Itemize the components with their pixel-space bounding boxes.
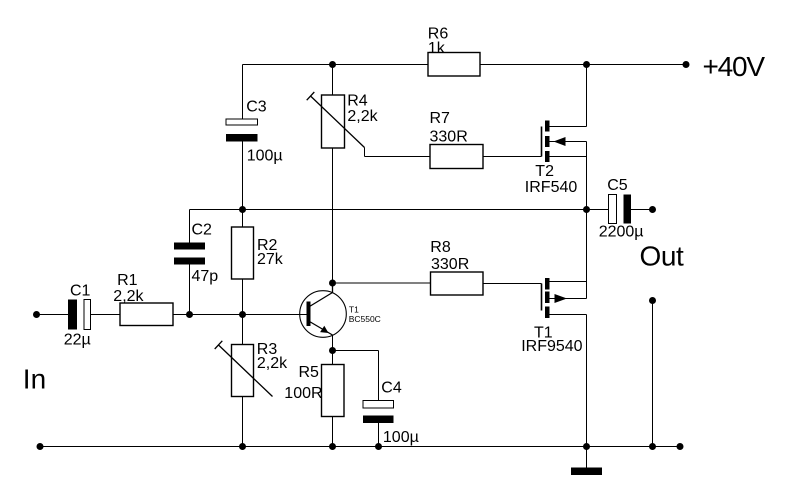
svg-text:R8: R8 bbox=[430, 239, 451, 256]
svg-text:2200µ: 2200µ bbox=[599, 224, 644, 241]
svg-text:100R: 100R bbox=[284, 385, 322, 402]
svg-text:C3: C3 bbox=[246, 98, 267, 115]
svg-text:IRF9540: IRF9540 bbox=[521, 338, 582, 355]
svg-text:1k: 1k bbox=[428, 40, 446, 57]
svg-text:27k: 27k bbox=[257, 251, 284, 268]
svg-text:C2: C2 bbox=[192, 222, 213, 239]
svg-text:IRF540: IRF540 bbox=[525, 179, 578, 196]
svg-text:T2: T2 bbox=[535, 163, 554, 180]
svg-text:2,2k: 2,2k bbox=[113, 288, 144, 305]
svg-text:BC550C: BC550C bbox=[349, 314, 381, 324]
svg-text:47p: 47p bbox=[192, 268, 219, 285]
svg-text:2,2k: 2,2k bbox=[257, 355, 288, 372]
svg-text:C1: C1 bbox=[70, 283, 91, 300]
svg-text:Out: Out bbox=[640, 241, 685, 272]
svg-text:2,2k: 2,2k bbox=[347, 108, 378, 125]
svg-text:22µ: 22µ bbox=[64, 331, 91, 348]
svg-text:C4: C4 bbox=[381, 380, 402, 397]
svg-text:R1: R1 bbox=[117, 272, 138, 289]
svg-text:330R: 330R bbox=[430, 128, 468, 145]
svg-text:100µ: 100µ bbox=[383, 429, 419, 446]
svg-text:100µ: 100µ bbox=[247, 147, 283, 164]
svg-text:R5: R5 bbox=[299, 364, 320, 381]
svg-text:In: In bbox=[23, 363, 46, 394]
svg-text:330R: 330R bbox=[431, 256, 469, 273]
svg-text:C5: C5 bbox=[607, 177, 628, 194]
svg-text:R7: R7 bbox=[430, 110, 451, 127]
svg-text:+40V: +40V bbox=[703, 51, 766, 82]
